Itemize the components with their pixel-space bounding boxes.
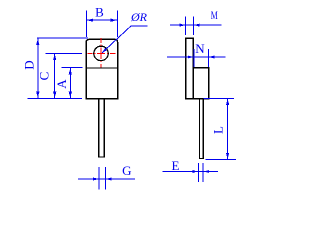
body side view	[193, 68, 208, 99]
svg-text:E: E	[172, 158, 180, 173]
dimension M	[170, 17, 222, 36]
body outline front view	[86, 39, 117, 98]
mounting hole circle	[94, 46, 108, 60]
shared bottom extension line	[28, 97, 82, 99]
centerline horizontal red	[88, 52, 116, 54]
svg-text:C: C	[37, 72, 52, 81]
dimension C	[46, 53, 82, 98]
lead front view	[99, 99, 105, 157]
svg-text:A: A	[54, 79, 69, 89]
dimension B	[86, 11, 117, 38]
dimension D	[36, 38, 88, 98]
dimension N	[167, 49, 226, 67]
tab side view	[186, 38, 194, 99]
svg-text:G: G	[122, 163, 131, 178]
svg-text:N: N	[195, 41, 205, 56]
svg-text:D: D	[22, 60, 37, 69]
dimension A	[61, 68, 82, 99]
dimension E	[163, 163, 219, 182]
lead side view	[199, 99, 203, 159]
leader OR to hole	[102, 26, 148, 53]
svg-text:M: M	[211, 8, 218, 22]
divider line front view	[86, 67, 117, 69]
svg-text:ØR: ØR	[130, 10, 148, 24]
dimension G	[78, 167, 135, 190]
centerline vertical red	[100, 38, 102, 67]
dimension L	[204, 98, 237, 159]
svg-text:L: L	[210, 126, 225, 134]
svg-text:B: B	[95, 5, 104, 20]
